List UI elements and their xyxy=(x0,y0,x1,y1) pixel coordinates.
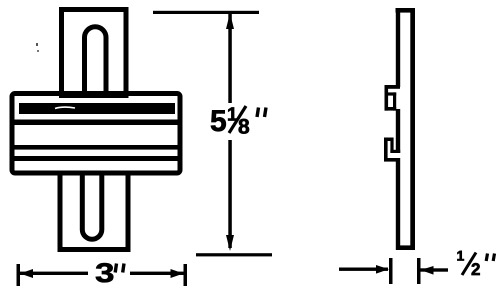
side view: strip top cap xyxy=(396,8,415,13)
label 1/2 inch: fraction numerator 1 xyxy=(457,251,464,261)
side view hook 1: bottom bar xyxy=(385,107,397,111)
dimension 3: left arrow xyxy=(20,269,33,278)
speck xyxy=(36,43,39,52)
front view: band line 3 xyxy=(14,145,179,150)
side view hook 1: inner cap xyxy=(388,92,396,95)
side view hook 2: left bar xyxy=(384,138,388,162)
label 5 1/8 inch: digit 5 xyxy=(211,110,226,131)
dimension 1/2: right line xyxy=(421,268,449,271)
dimension 5 1/8: vertical line lower segment xyxy=(228,140,232,248)
label 5 1/8 inch: fraction slash xyxy=(229,106,246,133)
dimension 3: left tick xyxy=(17,264,21,286)
side view hook 2: top bar xyxy=(384,138,394,142)
dimension 5 1/8: top arrow xyxy=(226,13,234,29)
front view: bottom slot xyxy=(82,171,102,239)
dimension 3: right line segment xyxy=(130,272,184,275)
dimension 5 1/8: vertical line upper segment xyxy=(228,14,232,103)
dimension 5 1/8: bottom arrow xyxy=(226,235,234,251)
side view hook 1: left bar xyxy=(385,85,389,111)
label 5 1/8 inch: quote marks xyxy=(257,108,266,118)
side view hook 2: bottom bar xyxy=(384,158,396,162)
side view: strip right edge xyxy=(410,8,415,250)
front view: band line 4 xyxy=(14,156,179,161)
label 5 1/8 inch: fraction numerator 1 xyxy=(228,107,237,120)
dimension 1/2: left tick xyxy=(389,258,393,284)
label 3 inch: digit 3 xyxy=(96,263,113,282)
side view: strip left edge segment 2 xyxy=(396,109,400,153)
front view: top tab outline xyxy=(62,10,127,96)
label 1/2 inch: fraction denominator 2 xyxy=(472,263,480,275)
label 1/2 inch: fraction slash xyxy=(462,253,476,276)
dimension 5 1/8: bottom extension line xyxy=(196,253,272,256)
dimension 1/2: right arrow xyxy=(421,266,434,275)
dimension 1/2: left line xyxy=(339,268,388,271)
side view: strip left edge segment 3 xyxy=(396,158,400,250)
front view: band thick bar xyxy=(19,103,175,114)
side view: strip bottom cap xyxy=(396,245,414,250)
side view hook 1: top bar xyxy=(385,85,401,89)
dimension 3: right arrow xyxy=(171,269,184,278)
front view: cross band outline xyxy=(12,94,180,174)
front view: top slot xyxy=(85,27,107,97)
dimension 3: left line segment xyxy=(20,272,88,275)
label 3 inch: quote marks xyxy=(115,264,124,273)
front view: band line 2 xyxy=(14,120,179,126)
dimension 5 1/8: top extension line xyxy=(153,11,259,14)
label 1/2 inch: quote marks xyxy=(486,254,494,262)
label 5 1/8 inch: fraction denominator 8 xyxy=(239,119,249,134)
side view hook 1: inner vertical xyxy=(393,92,396,110)
side view: strip left edge segment 1 xyxy=(396,8,400,87)
side view hook 2: connector xyxy=(390,150,400,153)
dimension 1/2: left arrow xyxy=(376,265,389,274)
dimension 3: right tick xyxy=(184,264,188,286)
dimension 1/2: right tick xyxy=(417,258,421,284)
front view: bottom tab outline xyxy=(60,173,128,250)
side view hook 2: inner vertical xyxy=(390,138,393,154)
